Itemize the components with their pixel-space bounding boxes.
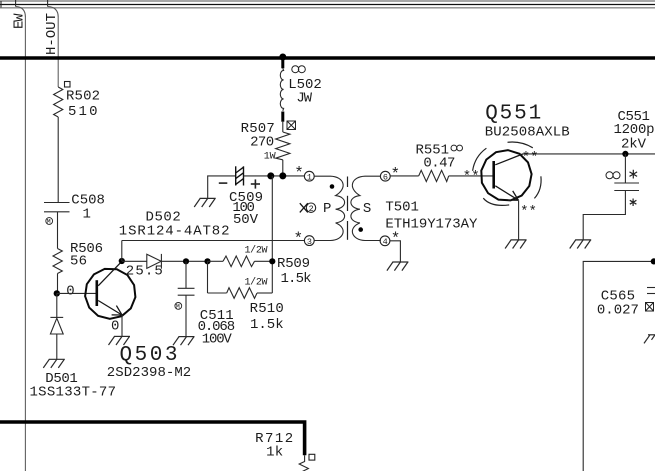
svg-text:50V: 50V	[233, 212, 259, 228]
svg-text:2: 2	[309, 204, 314, 214]
ground T501 pin4	[387, 262, 409, 271]
ground D501	[43, 359, 65, 368]
transformer T501 pin 4	[380, 236, 390, 247]
node junction dot base Q503	[54, 290, 60, 296]
svg-text:1: 1	[83, 207, 91, 223]
svg-text:1.5k: 1.5k	[250, 317, 284, 333]
node junction dot C551	[622, 151, 628, 157]
inductor L502 thick stub	[281, 57, 284, 68]
svg-text:P: P	[323, 201, 331, 217]
svg-text:0.027: 0.027	[597, 303, 639, 319]
capacitor C508	[44, 203, 70, 212]
wire C551 top	[624, 154, 626, 183]
capacitor C509 minus sign	[219, 182, 228, 184]
svg-text:1/2W: 1/2W	[245, 244, 268, 256]
svg-text:R502: R502	[66, 89, 100, 105]
wire pin4 to ground	[390, 241, 400, 262]
svg-text:0.47: 0.47	[423, 156, 455, 172]
svg-text:**: **	[520, 204, 537, 220]
transformer T501 primary phase dot	[330, 184, 335, 189]
svg-text:M: M	[176, 303, 180, 310]
wire node to Q503 base	[57, 292, 96, 294]
transistor Q551 heatsink arc right	[534, 176, 541, 198]
resistor R712	[299, 455, 308, 471]
inductor L502 thick bar	[281, 112, 284, 122]
svg-text:1: 1	[307, 172, 312, 182]
transformer T501 pin 6	[380, 171, 390, 182]
resistor R502	[54, 87, 63, 117]
wire C509 to junction	[244, 175, 305, 177]
svg-text:2SD2398-M2: 2SD2398-M2	[107, 365, 191, 381]
node R510 junction dot	[204, 258, 210, 264]
top border line gray 2	[0, 7, 655, 9]
node junction dot C509	[267, 172, 274, 179]
svg-text:R510: R510	[250, 301, 284, 317]
svg-text:EW: EW	[12, 13, 28, 29]
svg-text:H-OUT: H-OUT	[44, 13, 60, 55]
svg-text:T501: T501	[385, 200, 419, 216]
transistor Q503 body circle	[85, 269, 135, 319]
diode D501	[50, 293, 63, 359]
wire to T501 pin3	[122, 240, 305, 242]
svg-text:**: **	[522, 150, 539, 166]
wire ground to C509	[208, 176, 236, 199]
top border line black	[0, 4, 655, 6]
resistor R712 pad square	[309, 454, 315, 460]
capacitor C509 polarized plates	[236, 166, 244, 185]
resistor R510	[227, 288, 257, 299]
transformer T501 pin 1	[304, 171, 314, 182]
transistor Q503 collector	[98, 261, 122, 286]
transistor Q503 emitter	[98, 301, 122, 316]
inductor L502 coil	[280, 68, 283, 111]
svg-text:1SR124-4AT82: 1SR124-4AT82	[119, 224, 230, 240]
ground C551	[570, 240, 592, 249]
svg-text:270: 270	[250, 135, 274, 151]
wire R509 to vertical	[255, 260, 273, 262]
B+ bus thick horizontal line	[0, 56, 655, 60]
diode D502	[147, 254, 162, 269]
wire C565 branch	[583, 261, 655, 471]
wire pin6 to R551	[390, 175, 419, 177]
wire node to R509	[208, 260, 224, 262]
svg-text:1.5k: 1.5k	[281, 271, 312, 287]
wire EW arc	[16, 7, 26, 18]
inductor L502 symbol mark	[292, 66, 306, 73]
wire Q503 emitter to ground	[121, 315, 123, 336]
node C511 junction dot	[183, 258, 189, 264]
node junction dot R509 right	[269, 258, 275, 264]
capacitor C565 plates at edge	[647, 288, 655, 294]
wire H-OUT arc	[48, 7, 59, 18]
ground Q551 emitter	[505, 240, 526, 249]
ground C511	[173, 337, 195, 346]
wire EW vertical	[24, 17, 26, 471]
transistor Q551 base bar	[492, 161, 495, 189]
asterisk C551 bottom	[630, 199, 637, 207]
svg-text:**: **	[463, 169, 480, 185]
safety mark circled M at C508	[46, 218, 53, 226]
svg-text:R509: R509	[277, 256, 310, 272]
resistor R507	[276, 132, 290, 160]
svg-text:JW: JW	[296, 91, 312, 107]
capacitor C511	[178, 288, 195, 295]
transistor Q551 heatsink arc top	[508, 142, 533, 148]
resistor R551	[419, 170, 449, 181]
svg-text:0: 0	[111, 319, 119, 335]
wire C551 bottom to ground	[583, 191, 625, 240]
bottom bus thick line with corner	[0, 422, 305, 455]
wire R506 to node	[57, 274, 59, 294]
wire H-OUT vertical	[57, 17, 59, 87]
node junction dot right edge	[651, 258, 655, 264]
wire H-OUT drop tick	[47, 0, 49, 7]
transistor Q551 collector	[495, 154, 523, 165]
wire D502 to C511 node	[161, 260, 207, 262]
safety mark circled M at C511	[175, 303, 182, 311]
capacitor C509 plus sign	[251, 179, 260, 188]
capacitor C551	[614, 183, 639, 191]
wire collector node to D502	[122, 260, 147, 262]
transformer T501 secondary winding	[351, 176, 381, 240]
node junction dot on B+ bus	[279, 54, 286, 61]
transistor Q551 heatsink arc upper left	[473, 148, 487, 171]
svg-text:*: *	[294, 164, 304, 182]
resistor R502 pad square	[65, 82, 71, 88]
wire left edge tick	[0, 1, 2, 8]
wire EW drop tick	[15, 0, 17, 7]
wire R502 to C508	[57, 117, 59, 203]
svg-text:0: 0	[66, 284, 74, 300]
transformer T501 crossed pin 2	[300, 203, 316, 214]
wire collector node up	[121, 241, 123, 262]
svg-text:*: *	[294, 230, 304, 248]
transistor Q551 emitter	[495, 186, 518, 200]
capacitor C511 wire bottom	[185, 295, 187, 336]
ground C509 left	[194, 198, 216, 207]
transformer T501 primary winding	[314, 176, 344, 240]
ground Q503 emitter	[109, 336, 131, 345]
wire R510 right lead	[257, 292, 272, 294]
svg-text:6: 6	[383, 172, 388, 182]
svg-text:100V: 100V	[202, 332, 233, 348]
wire R510 branch down	[207, 261, 209, 293]
svg-text:M: M	[47, 219, 51, 226]
transistor Q551 body circle	[481, 150, 531, 200]
wire Q551 emitter to ground	[518, 200, 520, 240]
resistor R506	[53, 249, 62, 274]
svg-text:56: 56	[70, 253, 87, 269]
transformer T501 pin 3	[304, 236, 314, 247]
wire bar to R507	[282, 122, 284, 132]
test point box X at C565	[646, 303, 654, 312]
transistor Q503 base bar	[96, 280, 99, 306]
svg-text:S: S	[363, 201, 371, 217]
svg-text:25.5: 25.5	[126, 264, 163, 280]
node collector junction dot	[119, 258, 125, 264]
resistor R509	[223, 256, 255, 267]
resistor R551 symbol mark	[451, 145, 463, 151]
svg-text:510: 510	[68, 104, 98, 120]
svg-text:3: 3	[307, 237, 312, 247]
svg-text:1/2W: 1/2W	[245, 277, 268, 289]
svg-text:*: *	[391, 166, 401, 184]
transformer T501 core	[347, 177, 349, 240]
wire R510 left lead	[208, 292, 227, 294]
capacitor C511 wire top	[185, 261, 187, 288]
transformer T501 secondary phase dot	[358, 227, 363, 232]
wire R507 to junction	[282, 160, 284, 176]
wire Q551 collector	[523, 153, 655, 155]
svg-text:Q551: Q551	[485, 102, 541, 125]
test point box X at R507	[287, 121, 296, 130]
node junction dot R507	[279, 172, 286, 179]
svg-text:Q503: Q503	[120, 344, 178, 367]
wire vertical to R509 R510	[271, 176, 273, 293]
svg-text:4: 4	[383, 237, 388, 247]
asterisk C551 top	[630, 170, 638, 179]
capacitor C551 symbol mark	[606, 172, 620, 179]
svg-text:2kV: 2kV	[621, 137, 647, 153]
top border line gray 1	[0, 0, 655, 2]
wire C508 to R506	[57, 212, 59, 249]
svg-text:1SS133T-77: 1SS133T-77	[30, 385, 117, 401]
svg-text:BU2508AXLB: BU2508AXLB	[485, 125, 570, 141]
svg-text:ETH19Y173AY: ETH19Y173AY	[385, 216, 478, 232]
wire R551 to Q551 base	[449, 175, 493, 177]
svg-text:*: *	[391, 230, 401, 248]
svg-text:1W: 1W	[264, 152, 276, 163]
transistor Q551 heatsink arc bottom	[483, 198, 509, 205]
ground C565 partial	[644, 335, 655, 344]
svg-text:1k: 1k	[266, 445, 283, 461]
